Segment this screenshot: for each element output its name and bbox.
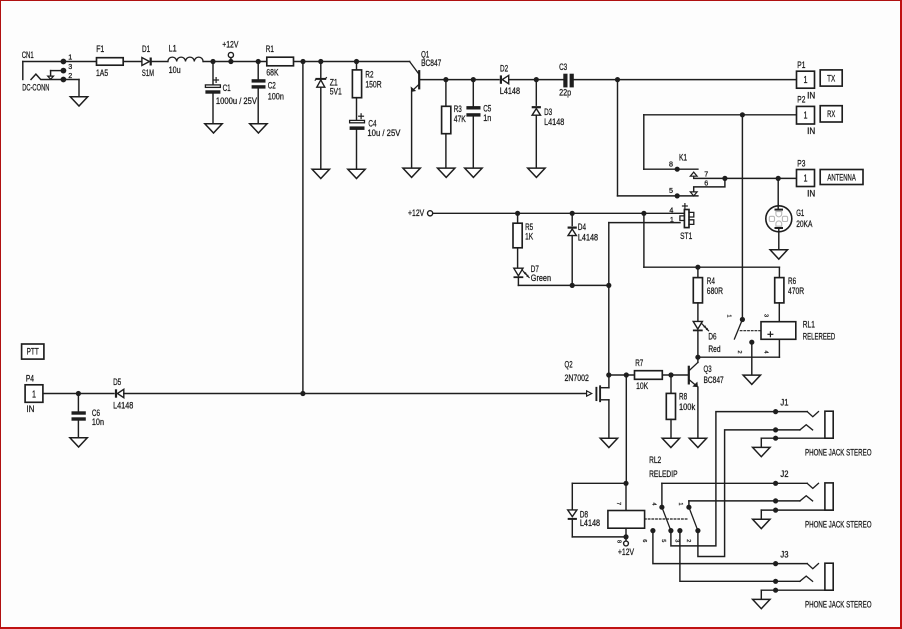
- svg-text:+12V: +12V: [618, 547, 635, 558]
- svg-text:22p: 22p: [559, 88, 571, 99]
- svg-text:C3: C3: [559, 62, 567, 73]
- svg-text:RX: RX: [827, 109, 836, 120]
- svg-text:IN: IN: [807, 126, 815, 137]
- svg-text:DC-CONN: DC-CONN: [22, 83, 49, 94]
- svg-text:4: 4: [763, 350, 769, 353]
- svg-text:L4148: L4148: [544, 117, 564, 128]
- svg-text:J1: J1: [780, 398, 788, 409]
- svg-text:P3: P3: [797, 158, 805, 169]
- svg-text:Green: Green: [531, 273, 551, 284]
- svg-text:L4148: L4148: [500, 86, 520, 97]
- svg-text:1: 1: [804, 111, 808, 122]
- svg-text:3: 3: [68, 64, 72, 71]
- svg-text:1: 1: [677, 502, 683, 505]
- svg-text:8: 8: [669, 162, 673, 169]
- svg-text:6: 6: [641, 539, 647, 542]
- svg-text:ANTENNA: ANTENNA: [827, 172, 856, 183]
- svg-text:100k: 100k: [679, 402, 695, 413]
- svg-text:K1: K1: [679, 152, 687, 163]
- svg-text:1n: 1n: [483, 113, 491, 124]
- svg-text:R8: R8: [679, 392, 687, 403]
- svg-text:Q2: Q2: [565, 360, 573, 371]
- svg-text:IN: IN: [26, 404, 34, 415]
- svg-text:L4148: L4148: [580, 518, 600, 529]
- svg-text:P2: P2: [797, 95, 805, 106]
- svg-text:7: 7: [615, 502, 621, 505]
- svg-text:10u: 10u: [169, 65, 181, 76]
- svg-text:4: 4: [650, 502, 656, 505]
- svg-text:L4148: L4148: [113, 401, 133, 412]
- svg-text:D1: D1: [142, 44, 150, 55]
- svg-text:Red: Red: [708, 344, 720, 355]
- svg-text:20KA: 20KA: [796, 219, 813, 230]
- svg-text:3: 3: [762, 314, 768, 317]
- svg-text:D6: D6: [708, 332, 716, 343]
- svg-text:J2: J2: [780, 469, 788, 480]
- svg-text:2: 2: [685, 539, 691, 542]
- svg-text:10K: 10K: [636, 381, 649, 392]
- svg-text:1: 1: [804, 75, 808, 86]
- svg-text:IN: IN: [807, 189, 815, 200]
- svg-text:68K: 68K: [266, 67, 279, 78]
- svg-text:L4148: L4148: [578, 232, 598, 243]
- svg-text:C2: C2: [268, 80, 276, 91]
- svg-text:TX: TX: [827, 73, 836, 84]
- svg-text:470R: 470R: [788, 286, 804, 297]
- svg-text:2: 2: [736, 350, 742, 353]
- svg-text:S1M: S1M: [142, 68, 154, 79]
- svg-text:150R: 150R: [365, 80, 381, 91]
- svg-text:PHONE JACK STEREO: PHONE JACK STEREO: [805, 447, 872, 458]
- svg-text:R1: R1: [266, 44, 274, 55]
- svg-text:ST1: ST1: [680, 231, 692, 242]
- svg-text:PHONE JACK STEREO: PHONE JACK STEREO: [805, 519, 872, 530]
- svg-text:5: 5: [660, 539, 666, 542]
- svg-text:4: 4: [669, 207, 673, 214]
- svg-text:7: 7: [704, 171, 708, 178]
- svg-text:C1: C1: [223, 83, 231, 94]
- svg-text:F1: F1: [96, 44, 104, 55]
- svg-text:2N7002: 2N7002: [565, 373, 589, 384]
- svg-text:RELEDIP: RELEDIP: [649, 469, 677, 480]
- svg-text:RELEREED: RELEREED: [803, 331, 835, 342]
- svg-text:1000u / 25V: 1000u / 25V: [216, 96, 258, 107]
- svg-text:100n: 100n: [268, 92, 284, 103]
- svg-text:BC847: BC847: [704, 375, 724, 386]
- svg-text:CN1: CN1: [22, 50, 34, 61]
- svg-text:R7: R7: [635, 358, 643, 369]
- svg-text:BC847: BC847: [421, 58, 441, 69]
- svg-text:RL2: RL2: [649, 455, 661, 466]
- svg-text:G1: G1: [796, 208, 804, 219]
- svg-text:L1: L1: [169, 44, 177, 55]
- svg-text:J3: J3: [780, 550, 788, 561]
- svg-text:3: 3: [673, 539, 679, 542]
- svg-text:D5: D5: [113, 377, 121, 388]
- svg-text:Q3: Q3: [704, 364, 712, 375]
- svg-text:1: 1: [32, 390, 36, 401]
- svg-text:IN: IN: [807, 90, 815, 101]
- svg-text:1K: 1K: [525, 232, 534, 243]
- svg-text:1A5: 1A5: [96, 68, 108, 79]
- svg-text:1: 1: [726, 314, 732, 317]
- svg-text:10n: 10n: [92, 417, 104, 428]
- svg-text:10u / 25V: 10u / 25V: [367, 128, 401, 139]
- svg-text:8: 8: [615, 540, 621, 543]
- svg-text:5V1: 5V1: [330, 87, 342, 98]
- svg-text:P4: P4: [26, 374, 34, 385]
- svg-text:RL1: RL1: [803, 320, 815, 331]
- svg-text:PHONE JACK STEREO: PHONE JACK STEREO: [805, 599, 872, 610]
- svg-text:47K: 47K: [454, 114, 467, 125]
- svg-text:680R: 680R: [707, 286, 723, 297]
- svg-text:2: 2: [68, 73, 72, 80]
- svg-text:PTT: PTT: [27, 347, 39, 358]
- svg-text:D2: D2: [500, 64, 508, 75]
- svg-text:+12V: +12V: [408, 208, 425, 219]
- svg-text:1: 1: [68, 54, 72, 61]
- svg-text:+12V: +12V: [222, 40, 239, 51]
- svg-text:5: 5: [669, 188, 673, 195]
- svg-text:P1: P1: [797, 60, 805, 71]
- svg-text:1: 1: [804, 174, 808, 185]
